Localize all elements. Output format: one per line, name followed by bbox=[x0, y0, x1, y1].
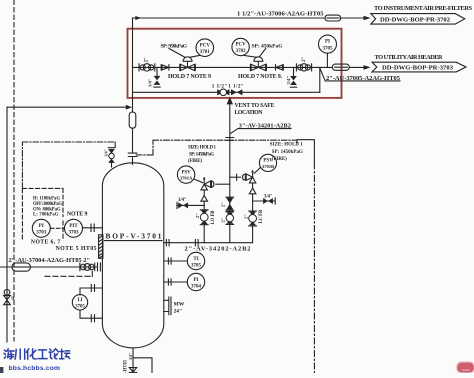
svg-text:DD-DWG-BOP-PR-3703: DD-DWG-BOP-PR-3703 bbox=[382, 65, 454, 72]
off-page flag DD-DWG-BOP-PR-3702 bbox=[371, 14, 465, 25]
svg-text:1 1/2": 1 1/2" bbox=[212, 83, 228, 89]
watermark chinese characters 海川化工论坛 bbox=[4, 349, 70, 359]
vent valve on vessel dome bbox=[108, 148, 115, 167]
instrument bubble PI 3705 bbox=[319, 35, 337, 67]
svg-text:3705: 3705 bbox=[191, 263, 202, 268]
label 2"-AV-34202-A2B2 bbox=[185, 246, 251, 253]
spec break capsule on instrument air header bbox=[325, 15, 341, 21]
svg-text:BOP-V-3701: BOP-V-3701 bbox=[106, 232, 162, 241]
wire: riser from header down to vessel bbox=[132, 18, 134, 165]
svg-text:2": 2" bbox=[302, 57, 307, 63]
dashed instrument box bbox=[22, 188, 63, 239]
leader lines to PCV-3702 actuator bbox=[244, 49, 266, 58]
isolation valves LO FB on PSV-A inlet bbox=[200, 210, 208, 225]
instrument bubble PSV 3701B bbox=[254, 154, 276, 173]
svg-text:LO FB: LO FB bbox=[211, 211, 216, 225]
svg-text:3702: 3702 bbox=[236, 49, 247, 54]
svg-text:2": 2" bbox=[145, 57, 150, 63]
spec break capsule on utility line bbox=[332, 64, 349, 70]
instrument signal dashed line (long, off-sheet) bbox=[13, 0, 15, 341]
svg-text:PI: PI bbox=[194, 278, 199, 283]
svg-text:SIZE: HOLD 1: SIZE: HOLD 1 bbox=[188, 146, 217, 151]
label 2" rotated (PSV-A inlet) bbox=[195, 213, 200, 218]
label 2" rotated (left gate) bbox=[145, 57, 150, 63]
heat tracing dashed line on feed bbox=[45, 271, 92, 277]
label LO FB rotated bbox=[211, 211, 216, 225]
svg-text:(FIRE): (FIRE) bbox=[272, 157, 287, 162]
label 2"-AU-37004-A2AG-HT05 2" bbox=[9, 257, 91, 264]
wire: west vertical line bbox=[6, 107, 8, 342]
svg-text:LOCATION: LOCATION bbox=[235, 110, 264, 116]
globe valve 1 1/2" on bypass bbox=[217, 89, 229, 96]
svg-text:3703: 3703 bbox=[69, 231, 80, 236]
svg-text:PSV: PSV bbox=[181, 170, 191, 175]
text HOLD 7 NOTE 9 left bbox=[168, 74, 211, 80]
svg-text:1 1/2"-AU-37006-A2AG-HT05: 1 1/2"-AU-37006-A2AG-HT05 bbox=[237, 10, 324, 17]
outlet valve (clipped) bbox=[129, 368, 136, 373]
dashed link PI-PIT bbox=[51, 227, 65, 229]
label 2"-AU-37005-A2AG-HT05 with leader bbox=[320, 68, 401, 82]
PSV-A spec text block bbox=[188, 146, 217, 165]
alarm setpoint table bbox=[33, 196, 62, 217]
svg-text:LI: LI bbox=[77, 298, 82, 303]
svg-text:DD-DWG-BOP-PR-3702: DD-DWG-BOP-PR-3702 bbox=[380, 16, 451, 23]
svg-text:1 1/2": 1 1/2" bbox=[228, 83, 244, 89]
check valve PSV-A outlet bbox=[212, 181, 230, 187]
control valve PCV-3702 body bbox=[250, 57, 266, 71]
instrument bubble PSV 3701A bbox=[177, 166, 202, 183]
text TO INSTRUMENT AIR PRE-FILTERS bbox=[374, 5, 472, 12]
svg-text:TO UTILITY AIR HEADER: TO UTILITY AIR HEADER bbox=[375, 54, 443, 61]
instrument bubble PCV 3701 bbox=[196, 39, 214, 57]
wire: bottom outlet from vessel bbox=[133, 348, 152, 373]
gate valve 1 1/2" on bypass bbox=[231, 89, 242, 95]
svg-text:SP: 1450kPaG: SP: 1450kPaG bbox=[189, 152, 214, 157]
arrowhead to flag 3703 bbox=[364, 65, 371, 70]
label 2" rotated (riser lower valve) bbox=[221, 217, 226, 222]
label 2" rotated (right gate) bbox=[302, 57, 307, 63]
svg-text:24": 24" bbox=[174, 308, 183, 314]
spec break capsule on feed line bbox=[12, 263, 30, 271]
label 1 1/2"-AU-37006-A2AG-HT05 bbox=[237, 10, 324, 17]
gate valve on feed line bbox=[80, 263, 95, 271]
package boundary dash-dot line bbox=[297, 140, 314, 373]
svg-text:3/4": 3/4" bbox=[178, 198, 187, 203]
svg-text:ON: 800kPaG: ON: 800kPaG bbox=[33, 207, 61, 212]
svg-text:2": 2" bbox=[195, 213, 200, 218]
wire: bypass line 1 1/2" bbox=[133, 91, 320, 93]
gate valve 2" left bbox=[139, 64, 155, 71]
wire: vent riser bbox=[229, 104, 231, 242]
heat tracing hatch strip NOTE 5 bbox=[99, 235, 103, 258]
svg-text:3/4": 3/4" bbox=[147, 78, 152, 87]
label 3/4" rotated (right drain) bbox=[286, 76, 291, 85]
inline filter on riser bbox=[129, 112, 136, 128]
label 3/4" rotated (left drain) bbox=[147, 78, 152, 87]
off-page flag DD-DWG-BOP-PR-3703 bbox=[372, 62, 466, 72]
label 2" rotated (PSV-B inlet) bbox=[243, 214, 248, 219]
svg-text:HOLD 7 NOTE 9.: HOLD 7 NOTE 9. bbox=[238, 74, 283, 80]
svg-text:PCV: PCV bbox=[235, 43, 246, 48]
globe valve on vent riser bbox=[226, 212, 234, 225]
svg-text:2": 2" bbox=[221, 217, 226, 222]
svg-text:(FIRE): (FIRE) bbox=[188, 159, 202, 164]
text NOTE 6, 7 bbox=[31, 239, 61, 245]
vessel tag BOP-V-3701 bbox=[105, 232, 163, 241]
svg-text:3705: 3705 bbox=[323, 46, 334, 51]
svg-text:LC FB: LC FB bbox=[259, 210, 264, 224]
PSV-B spec text block bbox=[270, 143, 304, 163]
label SP: 950kPaG bbox=[161, 44, 188, 50]
svg-text:3/4": 3/4" bbox=[103, 149, 108, 156]
wire: relief inlet header 2"-AV-34202 bbox=[164, 240, 253, 246]
svg-text:H: 1100kPaG: H: 1100kPaG bbox=[33, 196, 60, 201]
wire: PSV-A inlet drop bbox=[203, 201, 205, 243]
svg-text:PSV: PSV bbox=[263, 159, 273, 164]
red highlight box bbox=[128, 29, 342, 98]
control valve PCV-3701 body bbox=[180, 57, 196, 71]
svg-text:3701B: 3701B bbox=[262, 164, 274, 169]
reducer hat PSV-A inlet bbox=[201, 190, 208, 201]
wire: line from west with flow arrow into riser bbox=[7, 105, 132, 110]
label LC FB rotated bbox=[259, 210, 264, 224]
instrument bubble PCV 3702 bbox=[232, 38, 249, 55]
label 2" rotated (riser upper valve) bbox=[221, 202, 226, 207]
svg-text:bbs.hcbbs.com: bbs.hcbbs.com bbox=[9, 365, 61, 372]
leader lines to PCV-3701 actuator bbox=[169, 49, 200, 58]
instrument bubble PI 3703 bbox=[32, 219, 50, 237]
manway MW 24" bbox=[164, 297, 185, 315]
svg-text:2": 2" bbox=[221, 202, 226, 207]
flow arrow on header bbox=[135, 16, 141, 20]
flange pair on vent riser bbox=[226, 138, 234, 141]
wire: bypass drop at east end bbox=[319, 67, 321, 92]
wire: feed line 2"-AU-37004 bbox=[0, 266, 97, 268]
svg-text:-HT05: -HT05 bbox=[123, 359, 128, 373]
svg-text:TO INSTRUMENT AIR PRE-FILTERS: TO INSTRUMENT AIR PRE-FILTERS bbox=[374, 5, 472, 12]
flange pair on riser above vessel bbox=[128, 153, 137, 156]
svg-text:HOLD 7 NOTE 9: HOLD 7 NOTE 9 bbox=[168, 74, 211, 80]
svg-text:SP: 1450kPaG: SP: 1450kPaG bbox=[272, 150, 303, 155]
svg-text:2"-AV-34202-A2B2: 2"-AV-34202-A2B2 bbox=[185, 246, 251, 253]
3/4" test branch PSV-B bbox=[253, 194, 276, 204]
label 1 1/2" (bypass left) bbox=[212, 83, 228, 89]
instrument bubble TI 3705 bbox=[187, 252, 204, 269]
svg-text:NOTE 6, 7: NOTE 6, 7 bbox=[31, 239, 61, 245]
label 1 1/2" (bypass right) bbox=[228, 83, 244, 89]
svg-text:PIT: PIT bbox=[69, 224, 78, 229]
svg-text:3/4": 3/4" bbox=[264, 194, 273, 199]
reducer hat PSV-B inlet bbox=[249, 183, 256, 194]
arrowhead to flag 3702 bbox=[364, 16, 371, 21]
svg-text:L: 700kPaG: L: 700kPaG bbox=[33, 213, 59, 218]
svg-text:3701: 3701 bbox=[200, 50, 211, 55]
svg-text:TI: TI bbox=[193, 257, 198, 262]
relief valve PSV-3701B bbox=[246, 170, 256, 183]
nozzle line to TI 3705 bbox=[164, 258, 188, 264]
nozzle line to PI 3704 bbox=[164, 279, 188, 285]
flange pair at feed nozzle bbox=[98, 263, 101, 271]
svg-text:3/4": 3/4" bbox=[286, 76, 291, 85]
svg-text:2": 2" bbox=[243, 214, 248, 219]
text TO UTILITY AIR HEADER bbox=[375, 54, 443, 61]
svg-text:3703: 3703 bbox=[36, 231, 47, 236]
check valve left bbox=[161, 65, 169, 70]
svg-text:3704: 3704 bbox=[191, 284, 202, 289]
instrument impulse dashed line to dome valve bbox=[22, 142, 115, 188]
gate valve on west vertical with note 9 bbox=[4, 290, 15, 305]
svg-text:PI: PI bbox=[325, 40, 330, 45]
check valve right bbox=[276, 65, 284, 70]
forum icon bottom-right bbox=[457, 362, 474, 374]
text NOTE 5 HT05 bbox=[56, 246, 97, 252]
svg-text:NOTE 9: NOTE 9 bbox=[67, 212, 88, 218]
3/4" test branch PSV-A bbox=[177, 198, 204, 208]
check valve PSV-B outlet bbox=[230, 174, 246, 180]
watermark url bbs.hcbbs.com bbox=[9, 365, 61, 372]
vent arrow to safe location bbox=[227, 97, 275, 116]
bypass closed valve on vent riser bbox=[226, 197, 234, 210]
relief valve PSV-3701A bbox=[201, 177, 211, 190]
wire: instrument air header line 1 1/2" bbox=[133, 17, 365, 19]
3/4" drain valve left bbox=[154, 67, 161, 87]
wire: utility air main line bbox=[133, 66, 365, 68]
svg-text:SIZE: HOLD 1: SIZE: HOLD 1 bbox=[270, 143, 304, 148]
label rotated on outlet line bbox=[123, 353, 133, 373]
label 3/4" rotated (dome valve) bbox=[103, 149, 108, 156]
vessel BOP-V-3701 bbox=[102, 163, 163, 348]
svg-text:SP: 450kPaG: SP: 450kPaG bbox=[252, 43, 284, 49]
label SP: 450kPaG bbox=[252, 43, 284, 49]
3/4" drain valve right bbox=[290, 67, 297, 87]
svg-text:2"-AU-37004-A2AG-HT05 2": 2"-AU-37004-A2AG-HT05 2" bbox=[9, 257, 91, 264]
label 3"-AV-34201-A2B2 with leader bbox=[230, 122, 291, 133]
wire: PIT tap to vessel with flange bbox=[83, 224, 103, 231]
isolation valves LC FB on PSV-B inlet bbox=[249, 211, 257, 226]
svg-text:3/4": 3/4" bbox=[128, 353, 133, 360]
wire: PSV-B inlet drop bbox=[252, 194, 254, 243]
balance dashed line riser to vent bbox=[136, 140, 296, 155]
text NOTE 9 bbox=[67, 212, 88, 218]
svg-text:PI: PI bbox=[39, 224, 44, 229]
svg-text:VENT TO SAFE: VENT TO SAFE bbox=[235, 103, 275, 109]
svg-text:3705: 3705 bbox=[75, 304, 85, 309]
svg-text:SP: 950kPaG: SP: 950kPaG bbox=[161, 44, 188, 50]
instrument bubble PI 3704 bbox=[187, 273, 204, 290]
svg-text:3701A: 3701A bbox=[180, 176, 193, 181]
svg-text:MW: MW bbox=[174, 302, 185, 308]
gate valve 2" right bbox=[296, 64, 311, 71]
text HOLD 7 NOTE 9 right bbox=[238, 74, 283, 80]
instrument bubble PIT 3703 bbox=[65, 219, 83, 237]
instrument bubble LI 3705 with taps bbox=[72, 285, 102, 322]
svg-text:NOTE 5 HT05: NOTE 5 HT05 bbox=[56, 246, 97, 252]
svg-text:PCV: PCV bbox=[200, 43, 211, 48]
mark bottom-left corner bbox=[0, 367, 3, 373]
svg-text:OFF:1000kPaG: OFF:1000kPaG bbox=[33, 202, 62, 207]
